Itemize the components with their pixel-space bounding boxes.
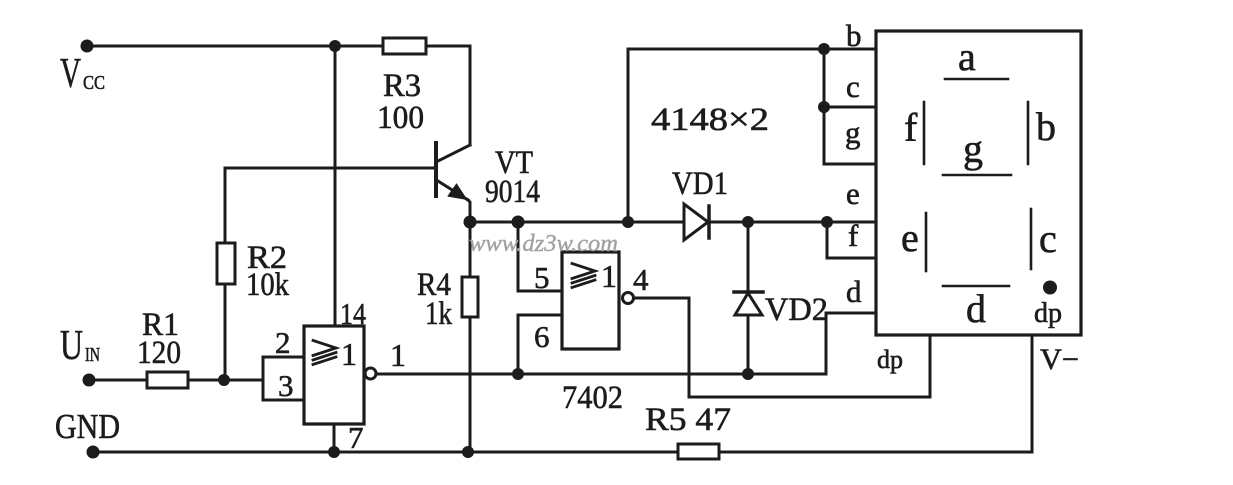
segment b bar: [1027, 102, 1030, 164]
node VD2 cathode junction: [742, 216, 754, 228]
node R4 ground junction: [462, 446, 474, 458]
svg-text:f: f: [848, 218, 859, 253]
svg-text:IN: IN: [85, 344, 100, 366]
wire junction to gate input bracket: [224, 379, 263, 382]
resistor R5: [678, 444, 719, 459]
svg-text:10k: 10k: [246, 267, 289, 303]
gate U1B 7402 NOR: [562, 252, 619, 349]
node VCC terminal: [81, 40, 94, 53]
resistor R4 with leads: [462, 222, 478, 452]
segment dp dot: [1043, 281, 1057, 295]
wire pin 14 from VCC: [334, 46, 337, 326]
transistor VT 9014: [436, 143, 470, 222]
wire base line: [225, 168, 436, 243]
svg-text:d: d: [846, 274, 862, 309]
wire bcg bracket: [824, 49, 876, 164]
svg-text:4: 4: [633, 262, 649, 297]
pin 1 bubble U1A output: [365, 368, 376, 379]
wire emitter node line: [470, 221, 684, 224]
svg-text:2: 2: [275, 325, 291, 360]
diode VD1: [684, 204, 709, 240]
display DS1 seven-segment body: [876, 31, 1081, 335]
svg-text:d: d: [966, 286, 986, 331]
wire input bracket pins 2-3: [263, 357, 304, 400]
svg-text:7: 7: [348, 420, 364, 455]
svg-text:R3: R3: [383, 68, 421, 104]
svg-text:b: b: [846, 18, 862, 53]
svg-text:dp: dp: [1034, 298, 1062, 329]
node c junction: [818, 101, 830, 113]
label U1B symbol: [572, 264, 595, 288]
wire ef bracket: [827, 222, 876, 258]
wire pin 6 bracket: [518, 315, 562, 374]
svg-text:120: 120: [137, 335, 181, 371]
node pin7 junction: [328, 446, 340, 458]
wire VCC junction to R3: [335, 45, 383, 48]
wire R3 to collector: [426, 46, 470, 145]
diode VD2: [734, 222, 763, 374]
node emitter junction: [464, 216, 477, 229]
svg-text:U: U: [60, 323, 83, 369]
svg-text:VD1: VD1: [672, 166, 728, 202]
node pin5 junction: [512, 216, 525, 229]
wire UIN to R1: [89, 379, 147, 382]
wire VD1 cathode to display pin e: [709, 221, 876, 224]
wire V- pin to R5: [719, 335, 1032, 452]
segment c bar: [1030, 209, 1033, 269]
svg-text:e: e: [846, 176, 860, 211]
segment e bar: [925, 213, 928, 271]
gate U1A 7402 NOR: [304, 326, 364, 424]
svg-text:e: e: [901, 215, 919, 260]
segment a bar: [945, 78, 1008, 81]
resistor R3: [383, 38, 426, 54]
svg-text:3: 3: [278, 368, 294, 403]
svg-text:c: c: [846, 69, 860, 104]
node GND terminal: [87, 446, 100, 459]
svg-text:1: 1: [341, 336, 357, 372]
svg-text:c: c: [1039, 216, 1057, 261]
svg-text:7402: 7402: [562, 380, 623, 416]
wire VCC rail: [87, 45, 335, 48]
wire dp pin riser: [929, 335, 932, 397]
node UIN terminal: [83, 374, 96, 387]
label U1A symbol: [313, 341, 336, 365]
resistor R2: [217, 243, 235, 284]
wire top feed to pins bcg: [628, 49, 876, 222]
svg-text:CC: CC: [83, 72, 105, 94]
node VD2 anode junction: [742, 368, 754, 380]
wire GND rail: [93, 451, 678, 454]
wire R2 to input node: [224, 284, 227, 380]
node input junction: [218, 374, 230, 386]
svg-text:a: a: [958, 34, 976, 79]
wire R1 to junction: [188, 379, 224, 382]
segment g bar: [943, 174, 1011, 177]
svg-text:V: V: [60, 51, 81, 97]
svg-text:dp: dp: [877, 345, 903, 374]
node b junction: [818, 43, 830, 55]
svg-text:9014: 9014: [485, 174, 540, 210]
wire pin 7 to GND: [333, 424, 336, 452]
node diode branch junction: [622, 216, 634, 228]
wire U1A output to display pin d: [376, 313, 876, 374]
svg-text:VD2: VD2: [765, 292, 828, 328]
segment d bar: [943, 285, 1009, 288]
svg-text:6: 6: [534, 319, 550, 354]
node ef bracket junction: [821, 216, 833, 228]
svg-text:14: 14: [340, 296, 366, 331]
wire pin 5 bracket: [518, 222, 562, 291]
node feedback junction pin6: [512, 368, 524, 380]
svg-text:g: g: [963, 126, 983, 171]
svg-text:GND: GND: [55, 407, 120, 446]
svg-text:1k: 1k: [425, 296, 452, 332]
node VCC junction: [329, 40, 341, 52]
svg-text:V−: V−: [1040, 343, 1079, 376]
svg-text:f: f: [904, 105, 918, 150]
svg-text:g: g: [845, 115, 861, 150]
svg-text:1: 1: [601, 258, 617, 294]
segment f bar: [923, 102, 926, 164]
svg-text:4148×2: 4148×2: [651, 102, 769, 138]
svg-text:b: b: [1036, 104, 1056, 149]
svg-text:R5 47: R5 47: [645, 402, 731, 438]
svg-text:www.dz3w.com: www.dz3w.com: [469, 231, 618, 257]
pin 4 bubble U1B output: [623, 293, 634, 304]
resistor R1: [147, 372, 188, 388]
wire pin 4 to display pin dp: [634, 298, 931, 397]
svg-text:1: 1: [390, 337, 406, 373]
svg-text:100: 100: [377, 100, 424, 136]
